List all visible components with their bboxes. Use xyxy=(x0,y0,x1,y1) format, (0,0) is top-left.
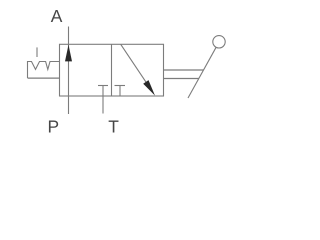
position divider xyxy=(111,44,113,96)
lever knob xyxy=(213,36,225,48)
lever arm xyxy=(188,47,216,98)
svg-text:T: T xyxy=(108,117,119,137)
lever push rod lower xyxy=(164,77,199,79)
port A / P flow line (wire) xyxy=(68,27,70,115)
flow path diagonal (right position) xyxy=(121,44,151,89)
valve body outline (two-position box) xyxy=(60,44,164,96)
tick above spring xyxy=(36,47,38,57)
arrowhead diagonal xyxy=(143,80,155,96)
return spring xyxy=(28,62,60,79)
lever push rod upper xyxy=(164,69,204,71)
arrowhead flow P->A xyxy=(65,45,72,62)
svg-text:P: P xyxy=(47,117,59,137)
blocked port stub (right position) xyxy=(115,85,126,87)
blocked port T stub (left position) with T drain line xyxy=(98,85,108,87)
svg-text:A: A xyxy=(51,6,63,26)
